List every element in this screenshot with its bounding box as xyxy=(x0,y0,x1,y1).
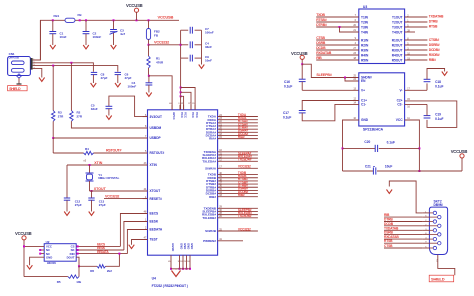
svg-text:16: 16 xyxy=(407,105,410,108)
label FB1 xyxy=(54,14,60,18)
svg-text:47pF: 47pF xyxy=(125,76,132,80)
SKT2 pin stubs xyxy=(422,213,429,248)
capacitor C3 xyxy=(110,20,118,45)
93C06 right pin names xyxy=(67,245,75,260)
label R4 xyxy=(85,147,89,151)
svg-text:AVCC: AVCC xyxy=(172,112,176,120)
label SP213EHCA xyxy=(363,127,384,131)
capacitor C6 47pF xyxy=(115,72,121,83)
svg-text:RIB: RIB xyxy=(316,56,322,60)
capacitor C12 27pF xyxy=(64,165,70,212)
junction VCCUSB stem xyxy=(136,19,138,21)
svg-text:DSRB: DSRB xyxy=(384,230,394,234)
svg-text:TXLEDB#: TXLEDB# xyxy=(238,214,252,218)
ground below C8 xyxy=(91,83,97,87)
wire 3V3OUT xyxy=(109,96,148,117)
CN1 shield diamond xyxy=(17,74,22,78)
svg-text:DTRB#: DTRB# xyxy=(316,23,327,27)
junction VCC3232 xyxy=(148,44,150,46)
svg-text:4u7: 4u7 xyxy=(120,32,126,36)
svg-text:U3: U3 xyxy=(363,5,367,9)
svg-text:R6: R6 xyxy=(90,269,94,273)
label R2 27R xyxy=(77,111,83,119)
ground arrow DB9 xyxy=(387,190,393,194)
capacitor C21 xyxy=(343,167,420,175)
wire TEST to gnd xyxy=(132,240,148,245)
svg-text:T1IN: T1IN xyxy=(361,15,369,19)
wire EEDATA xyxy=(127,230,147,254)
svg-text:10uF: 10uF xyxy=(385,165,392,169)
svg-text:TXDATAB: TXDATAB xyxy=(429,15,444,19)
connector SKT2 body xyxy=(429,207,447,254)
wire VCCUSB top rail xyxy=(40,20,179,60)
svg-text:C2-: C2- xyxy=(397,103,402,107)
wire cap block left rail xyxy=(180,30,182,58)
wire XTOUT xyxy=(90,190,148,192)
svg-text:SHIELD: SHIELD xyxy=(431,277,445,282)
label C1 10nF xyxy=(60,32,67,40)
junction EN branch xyxy=(344,77,346,79)
resistor R5 10k xyxy=(68,275,79,278)
wire VCC3232 rail down xyxy=(180,58,182,96)
svg-text:C1-: C1- xyxy=(361,103,366,107)
svg-text:FB1: FB1 xyxy=(54,14,60,18)
resistor R1 470R xyxy=(147,45,150,76)
label n5 xyxy=(83,159,86,162)
svg-text:CTSB: CTSB xyxy=(316,36,325,40)
junction C2 top xyxy=(85,19,87,21)
svg-text:R1OUT: R1OUT xyxy=(392,38,403,42)
svg-text:DCDB: DCDB xyxy=(316,46,326,50)
wire CS EECS xyxy=(76,245,120,247)
svg-text:EESK: EESK xyxy=(150,220,159,224)
ground below C12 xyxy=(64,212,70,216)
wire U3 GND down xyxy=(343,120,359,171)
svg-text:0.1uF: 0.1uF xyxy=(435,85,443,89)
resistor R2 27R xyxy=(70,63,148,128)
junction VCCUSB center xyxy=(301,63,303,65)
svg-text:EEDATA: EEDATA xyxy=(97,250,109,254)
junction GND C20 xyxy=(342,147,344,149)
connector CN1 body xyxy=(8,57,31,76)
label C2 100nF xyxy=(93,32,102,40)
U3 T input wires xyxy=(316,13,359,32)
svg-text:EEDATA: EEDATA xyxy=(150,228,163,232)
U3 R input wires xyxy=(316,36,359,60)
label C19 0.1uF xyxy=(435,112,443,121)
wire to VCC pin4 xyxy=(181,88,196,110)
svg-text:USBDP: USBDP xyxy=(150,136,162,140)
svg-text:VCC: VCC xyxy=(195,112,199,118)
junction USBDP xyxy=(52,137,54,139)
svg-text:T1OUT: T1OUT xyxy=(392,15,403,19)
svg-text:RTSB: RTSB xyxy=(429,25,438,29)
junction FB2 top xyxy=(148,19,150,21)
wire eeprom VCC xyxy=(24,245,44,247)
IC U3 power body xyxy=(359,73,405,126)
wire DIN EEDATA xyxy=(76,253,127,255)
svg-text:U4: U4 xyxy=(152,277,156,281)
junction XTOUT xyxy=(91,190,93,192)
93C06 left pin names xyxy=(46,245,52,260)
svg-text:SLEEPB#: SLEEPB# xyxy=(316,73,331,77)
wire VCC3232 to cap block xyxy=(149,44,181,46)
U1 right net labels xyxy=(238,113,252,232)
svg-text:RXDATAB: RXDATAB xyxy=(316,51,332,55)
IC U1 FT2232 body xyxy=(148,110,218,255)
junction XTIN crystal xyxy=(89,164,91,166)
svg-text:0.1uF: 0.1uF xyxy=(283,115,291,119)
svg-text:R2OUT: R2OUT xyxy=(392,43,403,47)
svg-text:R5: R5 xyxy=(57,280,61,284)
svg-text:C21: C21 xyxy=(365,165,371,169)
svg-text:6MHz CRYSTAL: 6MHz CRYSTAL xyxy=(98,176,119,180)
svg-text:VCC: VCC xyxy=(396,118,403,122)
svg-text:SP213EHCA: SP213EHCA xyxy=(363,127,384,131)
svg-text:TEST: TEST xyxy=(150,238,158,242)
svg-text:R5OUT: R5OUT xyxy=(392,58,403,62)
ground below C13 xyxy=(89,212,95,216)
CN1 pin numbers xyxy=(33,59,35,70)
capacitor C20 xyxy=(343,145,420,152)
IC U2 93C06 body xyxy=(44,244,76,262)
svg-text:10nF: 10nF xyxy=(60,35,67,39)
wire eeprom GND xyxy=(30,257,45,265)
label SKT2 DB9M xyxy=(434,199,443,207)
CN1 pin block xyxy=(30,58,32,70)
label R3 27R xyxy=(58,111,64,119)
svg-text:DSRB: DSRB xyxy=(316,41,326,45)
net label EEDATA xyxy=(97,250,109,254)
svg-text:GND: GND xyxy=(180,243,184,249)
svg-text:100nF: 100nF xyxy=(93,35,102,39)
label C13 27pF xyxy=(99,199,106,207)
capacitor C19 xyxy=(405,104,431,118)
junction AVCC node xyxy=(148,75,150,77)
U3 T output wires xyxy=(405,14,444,32)
label C4 100nF xyxy=(128,81,137,89)
net label SHIELD xyxy=(8,86,28,91)
capacitor C1 xyxy=(49,20,56,45)
junction VCC fan 1 xyxy=(180,87,182,89)
svg-text:R5IN: R5IN xyxy=(361,58,369,62)
svg-text:33nF: 33nF xyxy=(91,107,98,111)
svg-text:R4IN: R4IN xyxy=(361,53,369,57)
capacitor C17 xyxy=(299,101,359,121)
wire VCC down xyxy=(405,117,420,171)
label Y1 6MHz CRYSTAL xyxy=(98,173,119,180)
wire to VCC pin1 xyxy=(180,96,182,110)
SKT2 pins xyxy=(429,211,441,250)
svg-text:T4IN: T4IN xyxy=(361,30,369,34)
svg-text:VCC3232: VCC3232 xyxy=(154,41,169,45)
label R6 xyxy=(90,269,94,273)
svg-text:VCC: VCC xyxy=(184,112,188,118)
svg-text:PWREN#: PWREN# xyxy=(203,239,216,243)
svg-text:XTIN: XTIN xyxy=(94,161,103,165)
junction FB1 right xyxy=(79,19,81,21)
capacitor C8 47pF xyxy=(91,72,97,83)
svg-text:GND: GND xyxy=(46,255,52,259)
svg-text:n5: n5 xyxy=(83,159,86,162)
label FB2 FB xyxy=(154,30,160,38)
svg-text:VCC: VCC xyxy=(191,112,195,118)
label C4 33nF xyxy=(205,42,212,50)
U1 bottom ground pins xyxy=(168,243,194,270)
ground below CN1 xyxy=(39,78,45,82)
resistor R4 xyxy=(84,151,94,154)
svg-text:T2OUT: T2OUT xyxy=(392,20,403,24)
capacitor C2 xyxy=(83,20,90,45)
svg-text:VCC3232: VCC3232 xyxy=(238,165,251,169)
junction VCC fan 3 xyxy=(180,95,182,97)
svg-text:XTIN: XTIN xyxy=(150,163,158,167)
junction C1 top xyxy=(52,19,54,21)
wire RSTOUT# xyxy=(94,152,148,154)
label 93C06 xyxy=(47,261,56,265)
net label VCC3232 reset xyxy=(105,195,119,199)
svg-text:VCCUSB: VCCUSB xyxy=(126,3,143,8)
label 2k2 xyxy=(107,269,112,273)
svg-text:C17: C17 xyxy=(283,111,289,115)
label C8 47pF xyxy=(101,73,108,81)
svg-text:FB: FB xyxy=(154,34,159,38)
svg-text:DB9M: DB9M xyxy=(434,203,443,207)
wire shield to SHIELD label xyxy=(438,262,455,276)
svg-text:RESET#: RESET# xyxy=(150,197,163,201)
svg-text:RTSB: RTSB xyxy=(384,239,393,243)
svg-text:RIA#: RIA# xyxy=(238,135,245,139)
svg-text:EN: EN xyxy=(361,79,366,83)
U3 power pin names xyxy=(361,76,403,123)
label C20 0.1uF xyxy=(364,140,395,144)
svg-text:T2IN: T2IN xyxy=(361,20,369,24)
svg-text:C20: C20 xyxy=(364,140,370,144)
SKT2 signal wires xyxy=(384,213,422,248)
ground below C2 xyxy=(83,45,89,49)
svg-text:100nF: 100nF xyxy=(205,31,214,35)
wire EESK xyxy=(124,222,148,251)
svg-text:RIB: RIB xyxy=(384,213,390,217)
svg-text:SI/WUA: SI/WUA xyxy=(205,166,217,170)
svg-text:0.1uF: 0.1uF xyxy=(435,117,443,121)
svg-text:100nF: 100nF xyxy=(128,85,137,89)
label U1 xyxy=(152,277,156,281)
label C7 100nF xyxy=(205,27,214,35)
U1 top pins xyxy=(169,103,199,120)
svg-text:RXDB#: RXDB# xyxy=(429,53,440,57)
junction R6 EEDATA xyxy=(118,253,120,255)
svg-text:GND: GND xyxy=(187,243,191,249)
junction DOUT R5 xyxy=(78,265,80,267)
svg-text:U2: U2 xyxy=(46,240,50,244)
label U3 xyxy=(363,5,367,9)
label R1 470R xyxy=(156,57,164,65)
ground below C1 xyxy=(50,45,56,49)
svg-text:10nF: 10nF xyxy=(205,59,212,63)
net label SLEEPB# xyxy=(316,73,331,77)
svg-text:470R: 470R xyxy=(156,61,164,65)
junction C4 row left xyxy=(180,44,182,46)
svg-text:VCCUSB: VCCUSB xyxy=(158,15,174,20)
net label EESK xyxy=(97,246,106,250)
capacitor C16 xyxy=(299,64,359,90)
svg-text:SI/WUB: SI/WUB xyxy=(205,229,217,233)
U3 R output wires xyxy=(405,37,440,62)
capacitor C4 100nF xyxy=(146,76,153,93)
svg-text:GND: GND xyxy=(183,243,187,249)
svg-text:EECS: EECS xyxy=(150,212,159,216)
ferrite bead FB1 xyxy=(65,18,75,22)
svg-text:C18: C18 xyxy=(435,80,441,84)
power port VCCUSB eeprom xyxy=(15,231,32,246)
svg-text:RIB#: RIB# xyxy=(238,193,245,197)
label R5 xyxy=(57,280,61,284)
label C21 10uF xyxy=(365,165,392,169)
label CN1 xyxy=(9,52,19,59)
SKT2 pin numbers xyxy=(425,211,427,248)
svg-text:47pF: 47pF xyxy=(101,76,108,80)
ground below C5 xyxy=(106,116,112,120)
wire to VCC pin3 xyxy=(181,92,191,110)
svg-text:27R: 27R xyxy=(77,115,83,119)
93C06 NC stubs xyxy=(39,249,44,255)
wire CN1 shield to SHIELD xyxy=(17,78,22,84)
ground below U1 xyxy=(172,271,181,277)
U1 left pins xyxy=(143,114,165,242)
capacitor C9 xyxy=(181,55,202,62)
svg-text:27pF: 27pF xyxy=(99,203,106,207)
svg-text:SHIELD: SHIELD xyxy=(9,87,21,91)
capacitor C7 xyxy=(181,27,202,34)
svg-text:0.1uF: 0.1uF xyxy=(387,141,395,145)
wire VCCUSB to SHDN xyxy=(302,64,359,77)
wire R5 row xyxy=(23,245,68,276)
resistor R6 2k2 xyxy=(97,265,105,268)
svg-text:VCCUSB: VCCUSB xyxy=(15,231,32,236)
svg-text:RSTOUT#: RSTOUT# xyxy=(150,151,165,155)
svg-text:XTOUT: XTOUT xyxy=(150,189,161,193)
ground below TEST xyxy=(129,245,135,249)
svg-text:R4OUT: R4OUT xyxy=(392,53,403,57)
net label XTOUT xyxy=(94,187,107,191)
svg-text:GND: GND xyxy=(361,118,369,122)
svg-text:RSTOUT#: RSTOUT# xyxy=(106,149,122,153)
wire DOUT xyxy=(76,257,79,266)
svg-text:RTSB#: RTSB# xyxy=(316,18,327,22)
svg-text:USBDM: USBDM xyxy=(150,126,162,130)
crystal Y1 xyxy=(86,165,94,191)
svg-text:TXLEDB#: TXLEDB# xyxy=(202,216,216,220)
wire CN1 gnd xyxy=(33,68,42,77)
capacitor C13 27pF xyxy=(88,191,94,212)
svg-text:RIB#: RIB# xyxy=(429,58,436,62)
svg-text:93C06: 93C06 xyxy=(47,261,56,265)
net label SHIELD db9 xyxy=(429,275,454,282)
net label VCCUSB xyxy=(158,15,174,20)
svg-text:DOUT: DOUT xyxy=(67,255,75,259)
svg-text:VCC3232: VCC3232 xyxy=(238,227,251,231)
CN1 contact 2 xyxy=(11,69,24,73)
wire EN branch xyxy=(345,78,359,82)
svg-text:VCC: VCC xyxy=(180,112,184,118)
label C6 47pF xyxy=(125,73,132,81)
wire R5 to DOUT xyxy=(78,266,80,276)
svg-text:VCCUSB: VCCUSB xyxy=(451,149,468,154)
svg-text:R3IN: R3IN xyxy=(361,48,369,52)
U3 pin names xyxy=(361,15,403,62)
svg-text:T4OUT: T4OUT xyxy=(392,30,403,34)
ground below C6 xyxy=(115,83,121,87)
label C18 0.1uF xyxy=(435,80,443,89)
svg-text:0.1uF: 0.1uF xyxy=(284,85,292,89)
svg-text:R4: R4 xyxy=(85,147,89,151)
label C5 33nF xyxy=(91,103,98,111)
wire DB9 gnd path xyxy=(389,181,422,213)
power port VCCUSB center xyxy=(291,51,308,64)
svg-text:RIB#: RIB# xyxy=(209,195,216,199)
svg-text:CTSB#: CTSB# xyxy=(429,38,440,42)
wire R3 down to R4 xyxy=(53,138,83,153)
svg-text:C19: C19 xyxy=(435,112,441,116)
ferrite bead FB2 xyxy=(146,20,150,45)
junction VCC fan 2 xyxy=(180,91,182,93)
svg-text:27pF: 27pF xyxy=(75,203,82,207)
resistor R3 27R xyxy=(52,66,55,138)
svg-text:RIA#: RIA# xyxy=(209,137,216,141)
svg-text:C16: C16 xyxy=(284,80,290,84)
svg-text:TXDB: TXDB xyxy=(316,13,325,17)
ground below eeprom xyxy=(27,265,33,269)
svg-text:R1IN: R1IN xyxy=(361,38,369,42)
power port VCCUSB right xyxy=(419,149,467,171)
svg-text:2k2: 2k2 xyxy=(107,269,112,273)
svg-text:GND: GND xyxy=(190,243,194,249)
svg-text:VCC3232: VCC3232 xyxy=(105,195,119,199)
svg-text:T3IN: T3IN xyxy=(361,25,369,29)
power port VCCUSB top xyxy=(126,3,143,20)
label C12 27pF xyxy=(75,199,82,207)
ground below C4 xyxy=(146,93,152,97)
label U2 xyxy=(46,240,50,244)
svg-text:DCDB#: DCDB# xyxy=(429,48,440,52)
wire USB D- upper xyxy=(33,63,94,72)
wire R6 row xyxy=(79,265,97,267)
label C16 0.1uF xyxy=(284,80,292,89)
SKT2 shield pin xyxy=(436,255,438,263)
capacitor C5 33nF xyxy=(106,106,113,115)
junction VCC C20 xyxy=(418,147,420,149)
wire XTIN xyxy=(67,164,148,166)
wire R6 to EEDATA xyxy=(106,254,120,267)
wire USBDP xyxy=(53,137,147,139)
wire USB D+ lower xyxy=(33,66,118,72)
ground below cap block xyxy=(199,65,205,69)
net label VCC3232 xyxy=(154,41,169,45)
svg-text:TXLEDA#: TXLEDA# xyxy=(202,159,216,163)
net label RSTOUT# xyxy=(106,149,122,153)
svg-text:3V3OUT: 3V3OUT xyxy=(150,115,162,119)
label FT2232 RS232 PINOUT xyxy=(152,284,188,288)
label C17 0.1uF xyxy=(283,111,291,120)
wire EECS xyxy=(120,214,147,247)
capacitor C18 xyxy=(424,69,445,91)
net label XTIN xyxy=(94,161,103,165)
CN1 contact 1 xyxy=(11,61,24,65)
wire V- C18 xyxy=(405,88,427,91)
junction VCC C21 xyxy=(418,170,420,172)
label FB xyxy=(78,13,83,17)
